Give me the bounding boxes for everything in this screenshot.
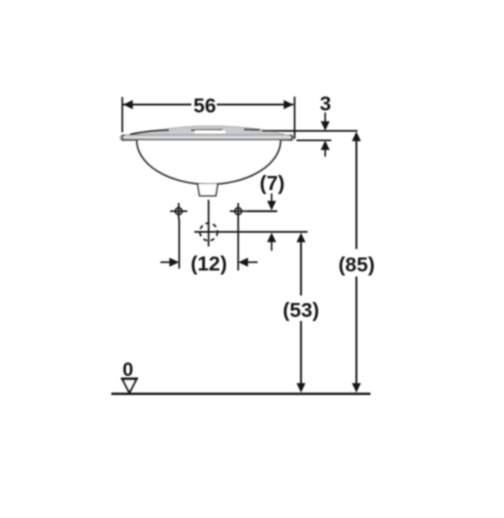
rim dark accent above overflow slot <box>191 129 223 131</box>
right tap hole cross <box>235 208 242 215</box>
dimension 7 down leader with arrowhead <box>271 193 273 201</box>
dimension 12 left arrow <box>160 261 170 263</box>
dimension 85 bottom arrowhead <box>352 383 361 393</box>
drain outlet dashed circle <box>200 223 218 241</box>
dimension 56 left extension line <box>121 97 123 132</box>
basin rim slab <box>120 135 293 141</box>
dimension 53 line <box>300 241 302 384</box>
svg-text:(7): (7) <box>260 172 285 195</box>
rim slab bottom edge <box>122 139 293 141</box>
dimension 56 right extension line <box>294 97 296 139</box>
rim left cap <box>122 135 124 140</box>
svg-text:56: 56 <box>193 94 216 117</box>
basin top dome <box>129 126 284 135</box>
left fixing extension line <box>178 219 180 269</box>
drain center horizontal line <box>194 231 307 233</box>
right fixing extension line <box>237 219 239 271</box>
drain stub <box>198 184 218 196</box>
dimension 53 bottom arrowhead <box>297 383 306 393</box>
dimension 3 bottom extension line <box>297 139 332 141</box>
dimension 85 top arrowhead <box>352 132 361 142</box>
basin bowl <box>137 140 281 184</box>
overflow slot <box>194 130 225 133</box>
dimension 3 lower up arrowhead <box>324 150 326 157</box>
dimension 56 right arrowhead <box>284 100 294 109</box>
dimension 7 up arrowhead below drain line <box>271 242 273 251</box>
dimension 3 top extension line <box>262 130 358 132</box>
svg-text:3: 3 <box>320 92 331 115</box>
floor line <box>111 393 370 395</box>
dimension 12 right arrow <box>248 261 258 263</box>
rim right cap <box>290 135 292 140</box>
tap hole extension line to dimension 7 <box>247 210 278 212</box>
drain centerline vertical <box>208 200 210 247</box>
dimension 56 left arrowhead <box>123 100 133 109</box>
dimension 53 top arrowhead <box>297 233 306 243</box>
dimension 85 line <box>355 140 357 384</box>
svg-text:(85): (85) <box>338 253 374 276</box>
svg-text:(12): (12) <box>191 253 227 276</box>
svg-text:0: 0 <box>122 359 133 381</box>
datum level symbol <box>121 378 138 380</box>
dimension 56 line <box>123 104 293 106</box>
rim dark accent right <box>244 129 260 131</box>
dimension 3 upper leader with down arrowhead <box>324 113 326 123</box>
rim dark accent left <box>130 130 169 135</box>
left tap hole cross <box>175 208 182 215</box>
svg-text:(53): (53) <box>283 299 319 322</box>
